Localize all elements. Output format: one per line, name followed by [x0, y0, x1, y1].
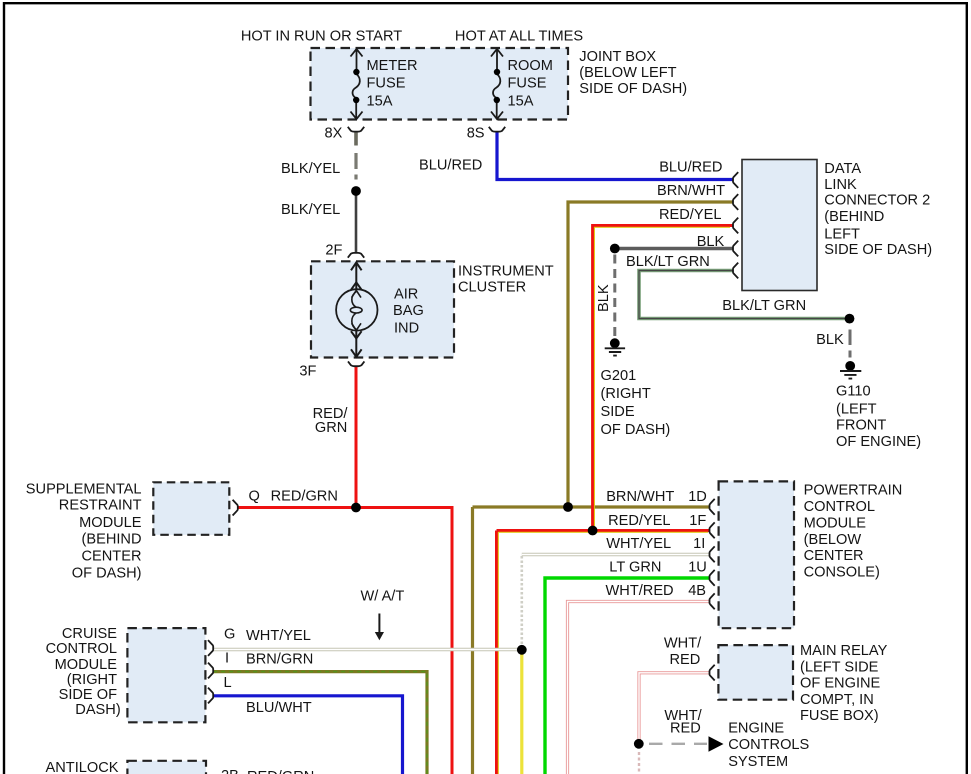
connector 2F: [348, 253, 364, 258]
wire BLK from DLC2 to junction: [615, 247, 733, 251]
svg-text:2F: 2F: [325, 243, 342, 259]
wire BLK/LT GRN from DLC2 to G110 junction: [639, 271, 850, 319]
svg-text:1U: 1U: [688, 560, 707, 576]
svg-text:RED/GRN: RED/GRN: [271, 488, 338, 504]
svg-text:BLK/YEL: BLK/YEL: [281, 202, 340, 218]
svg-text:DATA: DATA: [824, 161, 861, 177]
SRS connector arc: [233, 500, 238, 516]
svg-text:CONTROL: CONTROL: [804, 499, 875, 515]
svg-text:LINK: LINK: [824, 177, 857, 193]
svg-text:CENTER: CENTER: [804, 548, 864, 564]
supplemental restraint module box: [153, 482, 229, 535]
svg-text:1I: 1I: [693, 536, 705, 552]
svg-text:(RIGHT: (RIGHT: [601, 386, 651, 402]
svg-text:OF DASH): OF DASH): [601, 422, 671, 438]
fuse ROOM FUSE 15A: [491, 49, 503, 119]
svg-text:CONSOLE): CONSOLE): [804, 565, 880, 581]
svg-text:I: I: [225, 651, 229, 667]
svg-text:BLK/LT GRN: BLK/LT GRN: [722, 298, 806, 314]
svg-text:BRN/GRN: BRN/GRN: [246, 652, 313, 668]
svg-text:8S: 8S: [467, 126, 485, 142]
wire LT GRN from PCM 1U to bottom: [545, 578, 710, 774]
svg-text:2B: 2B: [221, 768, 239, 774]
svg-text:(RIGHT: (RIGHT: [67, 672, 117, 688]
svg-text:(BELOW LEFT: (BELOW LEFT: [579, 65, 676, 81]
wire WHT/YEL pale yellow below junction: [520, 655, 523, 774]
antilock module box (clipped at bottom): [127, 761, 206, 774]
svg-text:DASH): DASH): [75, 702, 120, 718]
cruise control module box: [127, 628, 205, 722]
svg-text:BLK: BLK: [596, 284, 612, 312]
svg-text:BLU/RED: BLU/RED: [419, 158, 482, 174]
W/ A/T arrow: [375, 614, 384, 641]
svg-text:BAG: BAG: [393, 303, 424, 319]
svg-text:OF DASH): OF DASH): [72, 566, 142, 582]
cruise control connector arcs: [208, 640, 213, 703]
svg-text:3F: 3F: [299, 363, 316, 379]
svg-text:OF ENGINE): OF ENGINE): [836, 434, 921, 450]
fuse METER FUSE 15A: [351, 49, 363, 119]
DLC2 connector arcs: [733, 172, 738, 278]
wire BLU/RED from 8S to DLC2: [497, 132, 733, 180]
joint box (fuse box): [311, 48, 569, 120]
svg-text:ENGINE: ENGINE: [728, 720, 784, 736]
svg-text:OF ENGINE: OF ENGINE: [800, 676, 881, 692]
svg-text:GRN: GRN: [315, 420, 347, 436]
svg-text:WHT/RED: WHT/RED: [606, 583, 674, 599]
wire BLU/WHT from cruise L to bottom: [213, 696, 403, 774]
ground G110: [840, 361, 861, 379]
svg-text:METER: METER: [367, 58, 418, 74]
svg-text:BLK: BLK: [697, 234, 725, 250]
svg-text:RED: RED: [670, 652, 701, 668]
svg-text:RED/YEL: RED/YEL: [608, 513, 670, 529]
svg-text:CRUISE: CRUISE: [62, 626, 117, 642]
svg-text:FUSE: FUSE: [508, 76, 547, 92]
svg-text:BLK: BLK: [816, 332, 844, 348]
svg-text:RED/GRN: RED/GRN: [247, 769, 314, 774]
wire BRN/WHT from DLC2 down to PCM 1D and to bottom: [473, 202, 733, 774]
svg-text:CONNECTOR 2: CONNECTOR 2: [824, 193, 930, 209]
svg-text:MODULE: MODULE: [804, 515, 867, 531]
instrument cluster box: [311, 261, 454, 357]
svg-text:(LEFT: (LEFT: [836, 401, 877, 417]
wire gray dashed to engine controls triangle: [649, 743, 707, 745]
svg-text:MODULE: MODULE: [79, 515, 142, 531]
svg-text:FUSE BOX): FUSE BOX): [800, 708, 879, 724]
wire BLK/YEL upper stub from 8X: [354, 132, 358, 146]
powertrain control module box: [719, 481, 794, 628]
svg-text:(BEHIND: (BEHIND: [824, 209, 884, 225]
wire WHT/RED dashed continuation below junction: [638, 752, 640, 774]
svg-text:(LEFT SIDE: (LEFT SIDE: [800, 659, 879, 675]
main relay box: [718, 645, 793, 700]
svg-text:SYSTEM: SYSTEM: [728, 754, 788, 770]
svg-text:CENTER: CENTER: [82, 549, 142, 565]
svg-text:HOT AT ALL TIMES: HOT AT ALL TIMES: [455, 29, 583, 45]
svg-text:15A: 15A: [367, 93, 393, 109]
svg-text:SIDE: SIDE: [601, 404, 635, 420]
svg-text:IND: IND: [394, 320, 419, 336]
svg-text:RED/YEL: RED/YEL: [659, 207, 721, 223]
wire BLK/YEL lower solid to 2F: [355, 196, 358, 253]
svg-text:(BELOW: (BELOW: [804, 532, 862, 548]
svg-text:CLUSTER: CLUSTER: [458, 280, 526, 296]
air bag indicator lamp in instrument cluster: [351, 262, 362, 357]
svg-text:G201: G201: [601, 368, 637, 384]
svg-text:FUSE: FUSE: [367, 76, 406, 92]
svg-text:1F: 1F: [689, 513, 706, 529]
junction dot BLK/YEL: [351, 186, 361, 196]
svg-text:G: G: [224, 627, 235, 643]
svg-text:BRN/WHT: BRN/WHT: [606, 489, 674, 505]
svg-text:L: L: [224, 675, 232, 691]
svg-text:15A: 15A: [508, 93, 534, 109]
svg-text:BLK/LT GRN: BLK/LT GRN: [626, 254, 710, 270]
svg-text:BRN/WHT: BRN/WHT: [657, 183, 725, 199]
svg-text:SIDE OF: SIDE OF: [59, 687, 117, 703]
junction dot WHT/YEL: [517, 645, 527, 655]
junction dot BLK/LT GRN at G110: [845, 314, 855, 324]
wire WHT/RED from PCM 4B to bottom: [568, 602, 710, 774]
svg-text:SUPPLEMENTAL: SUPPLEMENTAL: [26, 481, 142, 497]
svg-text:CONTROL: CONTROL: [46, 641, 117, 657]
svg-text:JOINT BOX: JOINT BOX: [579, 49, 656, 65]
wire BLK dashed down to G110: [849, 330, 852, 358]
connector 3F: [348, 361, 364, 366]
svg-text:RED: RED: [670, 720, 701, 736]
wire BLK dashed down to G201: [613, 255, 616, 339]
svg-text:CONTROLS: CONTROLS: [728, 737, 809, 753]
svg-text:BLU/WHT: BLU/WHT: [246, 700, 312, 716]
svg-text:(BEHIND: (BEHIND: [82, 532, 142, 548]
engine controls triangle: [709, 736, 724, 751]
svg-text:HOT IN RUN OR START: HOT IN RUN OR START: [241, 29, 402, 45]
svg-text:COMPT, IN: COMPT, IN: [800, 692, 874, 708]
svg-text:ROOM: ROOM: [508, 58, 553, 74]
svg-text:WHT/YEL: WHT/YEL: [606, 536, 671, 552]
junction dot BLK: [610, 244, 620, 254]
wire RED/YEL from DLC2 down to PCM 1F and to bottom: [497, 226, 733, 774]
svg-text:SIDE OF DASH): SIDE OF DASH): [579, 81, 687, 97]
svg-text:8X: 8X: [325, 126, 343, 142]
connector 8S: [489, 127, 505, 132]
svg-text:WHT/YEL: WHT/YEL: [246, 628, 311, 644]
wire WHT/YEL from PCM 1I down and cruise G junction: [213, 555, 710, 650]
svg-text:ANTILOCK: ANTILOCK: [46, 760, 119, 774]
wire BLK/YEL dashed segment: [354, 153, 357, 180]
svg-text:LEFT: LEFT: [824, 226, 860, 242]
svg-text:POWERTRAIN: POWERTRAIN: [804, 483, 903, 499]
svg-text:MODULE: MODULE: [55, 657, 118, 673]
junction dot BRN/WHT at PCM: [563, 502, 573, 512]
svg-text:W/ A/T: W/ A/T: [361, 588, 405, 604]
svg-text:SIDE OF DASH): SIDE OF DASH): [824, 242, 932, 258]
svg-text:G110: G110: [836, 384, 871, 400]
svg-text:WHT/: WHT/: [664, 636, 702, 652]
svg-text:1D: 1D: [688, 489, 707, 505]
junction dot RED/GRN: [351, 503, 361, 513]
svg-text:Q: Q: [249, 488, 260, 504]
data link connector 2 box: [742, 160, 817, 291]
svg-text:BLK/YEL: BLK/YEL: [281, 161, 340, 177]
svg-text:LT GRN: LT GRN: [609, 560, 661, 576]
wire WHT/RED from main relay down to junction: [639, 673, 710, 741]
svg-text:BLU/RED: BLU/RED: [659, 160, 722, 176]
junction dot RED/YEL at PCM: [588, 526, 598, 536]
junction dot WHT/RED engine controls: [634, 739, 644, 749]
svg-text:4B: 4B: [688, 583, 706, 599]
svg-text:INSTRUMENT: INSTRUMENT: [458, 263, 554, 279]
wire RED/GRN from 3F down, SRS branch, down to bottom: [238, 367, 453, 774]
ground G201: [605, 338, 625, 355]
wire BRN/GRN from cruise I to bottom: [213, 672, 427, 774]
connector 8X: [348, 127, 364, 132]
PCM connector arcs: [710, 499, 715, 609]
svg-text:MAIN RELAY: MAIN RELAY: [800, 643, 888, 659]
svg-text:FRONT: FRONT: [836, 418, 886, 434]
svg-text:AIR: AIR: [394, 287, 418, 303]
svg-text:RESTRAINT: RESTRAINT: [59, 498, 142, 514]
main relay connector arc: [710, 665, 715, 681]
